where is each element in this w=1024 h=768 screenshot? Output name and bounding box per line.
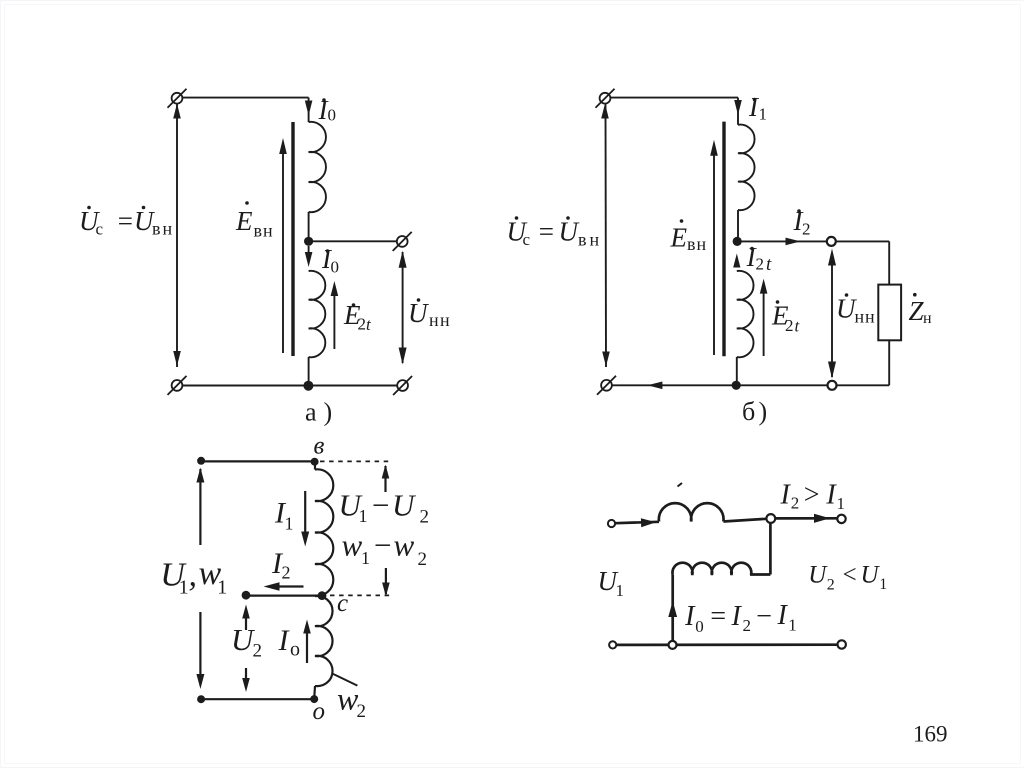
svg-text:0: 0 [328, 106, 337, 125]
svg-text:,: , [189, 556, 198, 593]
svg-text:в: в [578, 230, 587, 250]
svg-text:н: н [440, 310, 450, 330]
svg-text:1: 1 [837, 494, 846, 513]
svg-text:): ) [324, 398, 333, 427]
svg-text:с: с [337, 590, 348, 617]
svg-text:2: 2 [282, 563, 291, 583]
svg-text:2: 2 [418, 549, 428, 570]
svg-text:I: I [684, 601, 696, 632]
svg-text:а: а [305, 398, 317, 427]
svg-text:<: < [841, 561, 858, 588]
svg-text:I: I [780, 480, 792, 511]
svg-text:2: 2 [827, 577, 835, 594]
svg-text:н: н [163, 219, 173, 239]
svg-text:н: н [263, 221, 273, 241]
svg-text:U: U [861, 561, 881, 588]
svg-text:−: − [370, 488, 391, 523]
svg-text:1: 1 [616, 581, 625, 600]
svg-text:t: t [795, 317, 801, 336]
svg-text:с: с [96, 220, 104, 239]
svg-text:1: 1 [285, 513, 294, 533]
svg-text:2: 2 [791, 494, 800, 513]
svg-text:в: в [254, 221, 263, 241]
svg-text:2: 2 [785, 316, 794, 335]
svg-text:о: о [290, 638, 300, 660]
svg-text:t: t [366, 315, 372, 334]
svg-text:н: н [429, 310, 439, 330]
svg-text:н: н [697, 234, 707, 254]
svg-text:E: E [670, 223, 688, 253]
svg-text:н: н [855, 307, 865, 327]
svg-text:0: 0 [695, 617, 704, 636]
svg-text:U: U [392, 488, 417, 523]
svg-text:в: в [314, 433, 325, 460]
svg-text:2: 2 [802, 220, 811, 239]
svg-text:>: > [802, 480, 821, 511]
svg-text:б: б [742, 397, 755, 426]
svg-text:1: 1 [788, 616, 797, 635]
svg-text:): ) [759, 397, 768, 426]
svg-text:1: 1 [361, 548, 370, 568]
svg-text:1: 1 [879, 576, 887, 593]
svg-text:н: н [923, 310, 932, 327]
svg-text:1: 1 [359, 506, 368, 526]
svg-text:в: в [687, 234, 696, 254]
svg-text:U: U [559, 217, 580, 247]
svg-text:w: w [342, 528, 363, 563]
svg-text:1: 1 [759, 105, 768, 124]
svg-text:о: о [313, 698, 326, 725]
svg-text:2: 2 [357, 701, 367, 722]
svg-text:=: = [709, 601, 728, 632]
svg-text:−: − [755, 601, 774, 632]
svg-text:w: w [394, 528, 415, 563]
svg-text:U: U [408, 298, 429, 328]
svg-text:E: E [235, 206, 253, 236]
svg-text:=: = [116, 206, 134, 236]
svg-text:=: = [537, 217, 555, 247]
svg-text:−: − [372, 528, 393, 563]
svg-text:2: 2 [420, 507, 430, 528]
svg-text:t: t [766, 254, 772, 275]
svg-text:I: I [278, 624, 291, 657]
svg-text:I: I [731, 601, 743, 632]
svg-text:1: 1 [217, 577, 227, 599]
svg-text:U: U [808, 561, 828, 588]
svg-text:н: н [865, 307, 875, 327]
svg-text:I: I [777, 600, 789, 631]
svg-text:2: 2 [253, 641, 263, 662]
svg-text:2: 2 [743, 616, 752, 635]
svg-text:2: 2 [756, 255, 765, 274]
svg-text:169: 169 [913, 721, 948, 746]
svg-text:1: 1 [179, 577, 189, 599]
svg-text:в: в [152, 219, 161, 239]
svg-text:с: с [523, 230, 531, 249]
svg-text:0: 0 [331, 258, 340, 277]
svg-text:н: н [590, 230, 600, 250]
svg-text:2: 2 [358, 315, 367, 334]
